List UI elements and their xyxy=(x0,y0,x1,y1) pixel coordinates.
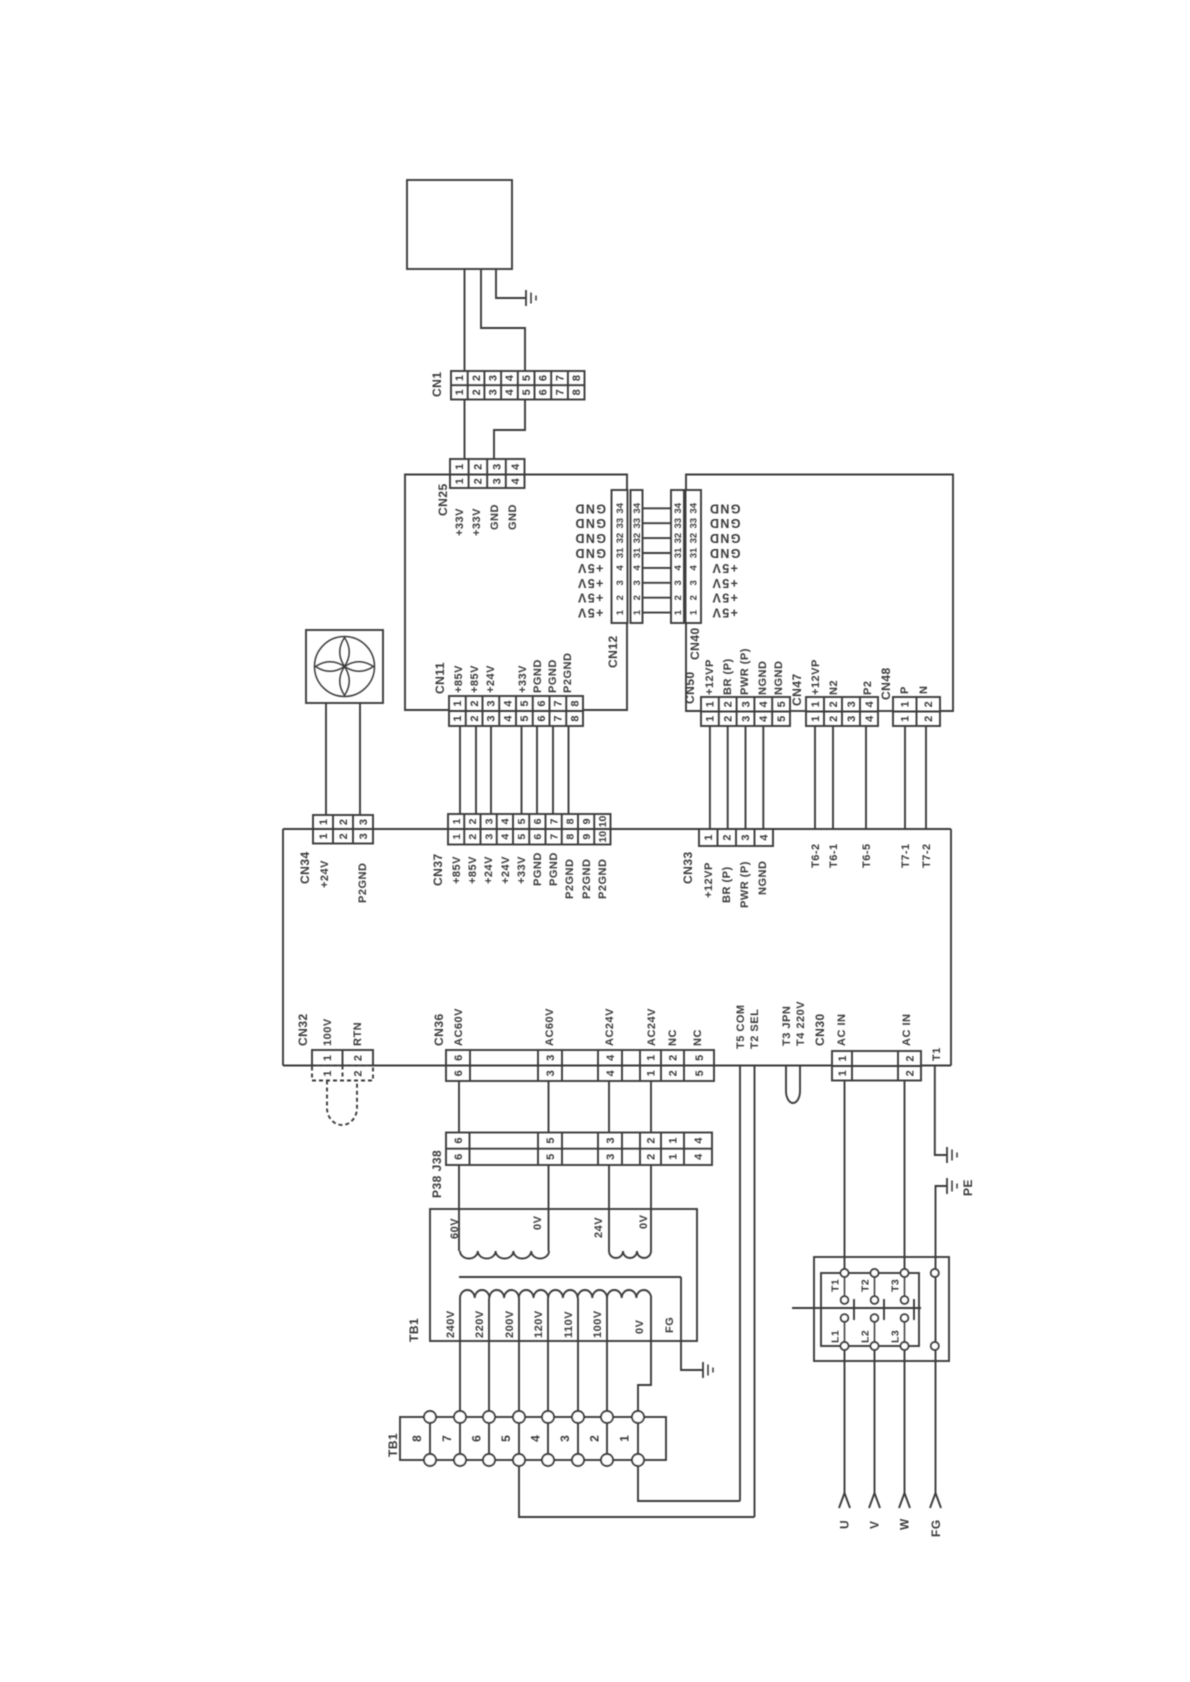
fan FAN1 xyxy=(306,630,383,703)
FG lead xyxy=(681,1277,703,1370)
svg-text:L2: L2 xyxy=(860,1330,872,1343)
svg-text:220V: 220V xyxy=(474,1310,486,1338)
ground FG xyxy=(702,1362,704,1378)
svg-text:+24V: +24V xyxy=(500,856,512,884)
svg-text:2: 2 xyxy=(469,715,481,721)
svg-text:5: 5 xyxy=(521,375,533,381)
svg-text:CN50: CN50 xyxy=(683,671,697,704)
svg-text:+12VP: +12VP xyxy=(704,659,716,695)
svg-text:3: 3 xyxy=(545,1055,557,1061)
svg-text:6: 6 xyxy=(453,1055,465,1061)
svg-text:NC: NC xyxy=(667,1029,679,1046)
svg-text:100V: 100V xyxy=(592,1310,604,1338)
svg-text:PGND: PGND xyxy=(547,659,559,693)
svg-text:1: 1 xyxy=(318,819,330,825)
svg-text:T2: T2 xyxy=(860,1279,872,1292)
svg-text:4: 4 xyxy=(529,1435,543,1442)
tap 220V xyxy=(488,1298,490,1411)
svg-text:1: 1 xyxy=(454,375,466,381)
svg-text:34: 34 xyxy=(615,502,626,513)
svg-text:33: 33 xyxy=(615,518,626,529)
svg-text:1: 1 xyxy=(837,1070,849,1076)
terminal circle top xyxy=(483,1411,495,1423)
svg-text:3: 3 xyxy=(486,700,498,706)
wire CN12 to CN40 xyxy=(643,537,672,539)
svg-text:3: 3 xyxy=(491,464,503,470)
svg-text:33: 33 xyxy=(689,518,700,529)
connector CN50 xyxy=(701,697,790,726)
display unit block xyxy=(407,180,512,269)
connector CN30 xyxy=(832,1051,921,1081)
svg-text:9: 9 xyxy=(581,818,593,824)
svg-text:AC24V: AC24V xyxy=(604,1008,616,1046)
contactor pole T3-L3 xyxy=(904,1273,906,1300)
wire display ground lead xyxy=(496,269,526,298)
svg-text:6: 6 xyxy=(538,389,550,395)
wire J38 to transformer xyxy=(650,1165,652,1251)
connector CN33 xyxy=(699,829,773,846)
svg-text:CN33: CN33 xyxy=(681,851,695,884)
svg-text:6: 6 xyxy=(532,834,544,840)
terminal circle bottom xyxy=(601,1454,613,1466)
svg-text:+24V: +24V xyxy=(319,860,331,888)
svg-text:2: 2 xyxy=(673,595,684,600)
svg-text:2: 2 xyxy=(588,1435,602,1442)
svg-text:1: 1 xyxy=(673,609,684,615)
svg-text:3: 3 xyxy=(740,701,752,707)
svg-text:3: 3 xyxy=(358,833,370,839)
svg-text:T6-2: T6-2 xyxy=(810,843,822,868)
svg-text:L3: L3 xyxy=(890,1330,902,1343)
svg-text:+5V: +5V xyxy=(711,561,738,575)
svg-text:GND: GND xyxy=(709,546,741,560)
connector CN37 xyxy=(448,814,611,845)
svg-text:+85V: +85V xyxy=(453,665,465,693)
svg-text:4: 4 xyxy=(500,834,512,840)
wire CN11 to CN37 xyxy=(459,726,461,814)
svg-text:+5V: +5V xyxy=(577,576,604,590)
svg-text:8: 8 xyxy=(571,389,583,395)
svg-text:6: 6 xyxy=(453,1138,465,1144)
svg-text:1: 1 xyxy=(322,1070,334,1076)
svg-text:33: 33 xyxy=(673,518,684,529)
transformer secondary winding 24V xyxy=(609,1251,651,1258)
wire CN12 to CN40 xyxy=(643,597,672,599)
connector CN1 xyxy=(451,371,585,400)
board box 1 outline xyxy=(405,475,450,711)
svg-text:1: 1 xyxy=(452,700,464,706)
arrow U xyxy=(839,1493,850,1508)
svg-text:31: 31 xyxy=(615,547,626,558)
svg-text:4: 4 xyxy=(504,388,516,395)
contactor PE feedthrough bottom xyxy=(931,1342,939,1350)
board box 2 outline xyxy=(686,475,953,712)
svg-text:PGND: PGND xyxy=(532,659,544,693)
wire output W xyxy=(904,1350,906,1493)
svg-text:1: 1 xyxy=(810,716,822,722)
terminal circle bottom xyxy=(542,1454,554,1466)
wire T1 to chassis ground xyxy=(935,1066,947,1156)
svg-text:4: 4 xyxy=(510,477,522,484)
wire T5 COM xyxy=(739,1066,741,1502)
svg-text:CN1: CN1 xyxy=(430,371,444,397)
svg-text:3: 3 xyxy=(545,1070,557,1076)
svg-text:2: 2 xyxy=(645,1154,657,1160)
svg-text:8: 8 xyxy=(565,818,577,824)
svg-text:1: 1 xyxy=(454,478,466,484)
svg-text:1: 1 xyxy=(318,833,330,839)
terminal strip TB1 xyxy=(400,1417,666,1460)
tap 100V xyxy=(606,1298,608,1411)
wire CN50 to CN33 xyxy=(745,726,747,829)
svg-text:3: 3 xyxy=(689,580,700,585)
connector CN25 xyxy=(450,459,525,488)
svg-text:4: 4 xyxy=(693,1153,705,1160)
svg-text:1: 1 xyxy=(667,1154,679,1160)
svg-text:6: 6 xyxy=(470,1435,484,1442)
svg-text:4: 4 xyxy=(605,1054,617,1061)
transformer secondary winding 60V xyxy=(460,1251,549,1259)
wire CN1 pin5 to CN25 pin3 xyxy=(494,400,525,460)
svg-text:7: 7 xyxy=(553,700,565,706)
svg-text:4: 4 xyxy=(510,463,522,470)
svg-text:34: 34 xyxy=(689,502,700,513)
svg-text:1: 1 xyxy=(837,1055,849,1061)
svg-text:5: 5 xyxy=(521,389,533,395)
svg-text:CN30: CN30 xyxy=(813,1013,827,1046)
svg-text:GND: GND xyxy=(574,501,606,515)
svg-text:10: 10 xyxy=(597,831,609,843)
svg-text:GND: GND xyxy=(574,546,606,560)
svg-text:3: 3 xyxy=(483,834,495,840)
svg-text:T1: T1 xyxy=(830,1279,842,1292)
svg-text:P2GND: P2GND xyxy=(581,859,593,899)
svg-text:GND: GND xyxy=(709,531,741,545)
svg-text:1: 1 xyxy=(451,818,463,824)
svg-text:10: 10 xyxy=(597,816,609,828)
svg-text:31: 31 xyxy=(689,547,700,558)
svg-text:5: 5 xyxy=(516,818,528,824)
svg-text:1: 1 xyxy=(632,609,643,615)
terminal circle top xyxy=(454,1411,466,1423)
svg-text:NGND: NGND xyxy=(757,861,769,895)
svg-text:34: 34 xyxy=(632,502,643,513)
connector CN11 xyxy=(449,696,583,726)
svg-text:2: 2 xyxy=(338,819,350,825)
svg-text:3: 3 xyxy=(740,716,752,722)
svg-text:P2GND: P2GND xyxy=(564,859,576,899)
wire T2 SEL xyxy=(754,1066,756,1518)
svg-text:CN25: CN25 xyxy=(436,483,450,516)
svg-text:3: 3 xyxy=(558,1435,572,1442)
wire CN48 pin1 to T7-1 xyxy=(904,726,906,829)
wire CN12 to CN40 xyxy=(643,582,672,584)
wire terminal 5 to T2 SEL xyxy=(519,1466,755,1517)
svg-text:GND: GND xyxy=(489,504,501,530)
svg-text:+5V: +5V xyxy=(577,606,604,620)
svg-text:TB1: TB1 xyxy=(386,1433,400,1457)
contactor inner box xyxy=(821,1273,919,1346)
wire CN30 pin2 to contactor T3 xyxy=(904,1081,906,1274)
svg-text:T5 COM: T5 COM xyxy=(735,1004,747,1049)
svg-text:4: 4 xyxy=(502,700,514,707)
svg-text:2: 2 xyxy=(352,1055,364,1061)
jumper T3-T4 xyxy=(786,1066,800,1104)
svg-text:4: 4 xyxy=(864,700,876,707)
svg-text:4: 4 xyxy=(632,565,643,571)
svg-text:100V: 100V xyxy=(322,1018,334,1046)
svg-text:2: 2 xyxy=(471,389,483,395)
svg-text:6: 6 xyxy=(532,818,544,824)
svg-text:5: 5 xyxy=(694,1070,706,1076)
svg-text:4: 4 xyxy=(689,565,700,571)
svg-text:2: 2 xyxy=(645,1138,657,1144)
svg-text:GND: GND xyxy=(574,531,606,545)
svg-text:32: 32 xyxy=(615,533,626,544)
svg-text:0V: 0V xyxy=(634,1319,646,1334)
svg-text:BR (P): BR (P) xyxy=(722,658,734,695)
wire CN12 to CN40 xyxy=(643,507,672,509)
svg-text:T6-5: T6-5 xyxy=(861,843,873,868)
svg-text:3: 3 xyxy=(488,389,500,395)
svg-text:2: 2 xyxy=(473,464,485,470)
terminal circle top xyxy=(601,1411,613,1423)
svg-text:5: 5 xyxy=(694,1055,706,1061)
svg-text:1: 1 xyxy=(645,1055,657,1061)
svg-text:N2: N2 xyxy=(828,680,840,695)
svg-text:W: W xyxy=(898,1518,912,1530)
svg-text:1: 1 xyxy=(667,1138,679,1144)
terminal circle top xyxy=(632,1411,644,1423)
connector CN47 xyxy=(806,697,878,726)
svg-text:2: 2 xyxy=(615,595,626,600)
svg-text:CN11: CN11 xyxy=(433,662,447,694)
svg-text:P2: P2 xyxy=(862,681,874,695)
terminal circle bottom xyxy=(513,1454,525,1466)
svg-text:NGND: NGND xyxy=(757,661,769,695)
svg-text:PWR (P): PWR (P) xyxy=(739,648,751,695)
svg-text:3: 3 xyxy=(632,580,643,585)
svg-text:2: 2 xyxy=(338,833,350,839)
connector P38 J38 xyxy=(446,1133,712,1166)
contactor PE feedthrough top xyxy=(931,1269,939,1277)
terminal circle bottom xyxy=(632,1454,644,1466)
svg-text:3: 3 xyxy=(605,1138,617,1144)
wire output U xyxy=(844,1350,846,1493)
svg-text:CN37: CN37 xyxy=(431,853,445,886)
wire CN11 to CN37 xyxy=(521,726,523,814)
power unit box outline xyxy=(283,828,313,830)
svg-text:CN32: CN32 xyxy=(296,1013,310,1046)
wire terminal 1 to T5 COM xyxy=(638,1466,740,1501)
svg-text:U: U xyxy=(838,1520,852,1529)
svg-text:32: 32 xyxy=(673,533,684,544)
svg-text:4: 4 xyxy=(504,374,516,381)
connector CN40 xyxy=(671,490,684,623)
svg-text:3: 3 xyxy=(491,478,503,484)
wire CN12 to CN40 xyxy=(643,552,672,554)
tap 0V xyxy=(638,1298,651,1411)
svg-text:4: 4 xyxy=(673,565,684,571)
svg-text:CN36: CN36 xyxy=(432,1013,446,1046)
ground PE xyxy=(946,1178,948,1194)
svg-text:1: 1 xyxy=(900,716,912,722)
svg-text:8: 8 xyxy=(571,375,583,381)
terminal circle top xyxy=(542,1411,554,1423)
svg-text:60V: 60V xyxy=(449,1218,461,1239)
svg-text:PE: PE xyxy=(961,1179,975,1196)
connector CN12 xyxy=(612,490,628,623)
transformer primary winding xyxy=(460,1290,651,1298)
svg-text:2: 2 xyxy=(632,595,643,600)
svg-text:+5V: +5V xyxy=(577,561,604,575)
svg-text:FG: FG xyxy=(929,1519,943,1537)
wire CN36 to J38 xyxy=(650,1081,652,1133)
svg-text:+33V: +33V xyxy=(517,665,529,693)
svg-text:6: 6 xyxy=(453,1154,465,1160)
svg-text:T3 JPN: T3 JPN xyxy=(781,1006,793,1046)
svg-text:+5V: +5V xyxy=(711,591,738,605)
svg-text:0V: 0V xyxy=(532,1215,544,1230)
svg-text:2: 2 xyxy=(722,834,734,840)
svg-text:8: 8 xyxy=(569,715,581,721)
svg-text:3: 3 xyxy=(605,1154,617,1160)
wire display pin2 to CN1 pin5 xyxy=(481,269,525,371)
transformer TB1 box xyxy=(430,1209,697,1341)
svg-text:3: 3 xyxy=(358,819,370,825)
svg-text:0V: 0V xyxy=(638,1214,650,1229)
svg-text:4: 4 xyxy=(500,818,512,824)
wire CN11 to CN37 xyxy=(490,726,492,814)
svg-text:2: 2 xyxy=(923,701,935,707)
tap 200V xyxy=(518,1298,520,1411)
svg-text:120V: 120V xyxy=(533,1310,545,1338)
svg-text:+12VP: +12VP xyxy=(703,862,715,898)
wire CN11 to CN37 xyxy=(536,726,538,814)
svg-text:6: 6 xyxy=(453,1070,465,1076)
svg-text:4: 4 xyxy=(758,700,770,707)
svg-text:7: 7 xyxy=(553,715,565,721)
svg-text:31: 31 xyxy=(632,547,643,558)
svg-text:BR (P): BR (P) xyxy=(721,866,733,903)
svg-text:2: 2 xyxy=(689,595,700,600)
wire CN47 to T6 xyxy=(865,726,867,829)
svg-text:+5V: +5V xyxy=(711,606,738,620)
svg-text:7: 7 xyxy=(554,389,566,395)
contactor outer box xyxy=(814,1257,949,1361)
svg-text:7: 7 xyxy=(548,834,560,840)
svg-text:T7-1: T7-1 xyxy=(900,843,912,868)
svg-text:P2GND: P2GND xyxy=(562,653,574,693)
tap 110V xyxy=(577,1298,579,1411)
wire CN47 to T6 xyxy=(832,726,834,829)
wire CN47 to T6 xyxy=(814,726,816,829)
svg-text:32: 32 xyxy=(632,533,643,544)
svg-text:2: 2 xyxy=(667,1070,679,1076)
terminal circle bottom xyxy=(424,1454,436,1466)
svg-text:P: P xyxy=(899,686,911,694)
svg-text:2: 2 xyxy=(469,700,481,706)
tap 240V xyxy=(459,1298,461,1411)
svg-text:AC IN: AC IN xyxy=(836,1014,848,1046)
svg-text:3: 3 xyxy=(740,834,752,840)
arrow V xyxy=(869,1493,880,1508)
svg-text:240V: 240V xyxy=(445,1310,457,1338)
svg-text:3: 3 xyxy=(846,701,858,707)
svg-text:+33V: +33V xyxy=(471,508,483,536)
svg-text:1: 1 xyxy=(451,834,463,840)
terminal circle bottom xyxy=(572,1454,584,1466)
svg-text:1: 1 xyxy=(454,389,466,395)
svg-text:4: 4 xyxy=(615,565,626,571)
svg-text:1: 1 xyxy=(900,701,912,707)
connector CN34 xyxy=(313,815,373,844)
svg-text:CN12: CN12 xyxy=(606,635,620,668)
svg-text:200V: 200V xyxy=(504,1310,516,1338)
svg-text:P2GND: P2GND xyxy=(597,859,609,899)
svg-text:+24V: +24V xyxy=(483,856,495,884)
svg-text:4: 4 xyxy=(693,1137,705,1144)
svg-text:5: 5 xyxy=(776,716,788,722)
svg-text:1: 1 xyxy=(454,464,466,470)
svg-text:1: 1 xyxy=(810,701,822,707)
svg-text:RTN: RTN xyxy=(352,1022,364,1046)
svg-text:P2GND: P2GND xyxy=(357,863,369,903)
svg-text:2: 2 xyxy=(467,818,479,824)
svg-text:TB1: TB1 xyxy=(407,1318,421,1342)
connector CN48 xyxy=(893,697,940,726)
svg-text:6: 6 xyxy=(536,700,548,706)
svg-text:T6-1: T6-1 xyxy=(828,843,840,868)
wire CN11 to CN37 xyxy=(552,726,554,814)
svg-text:7: 7 xyxy=(554,375,566,381)
svg-text:T2 SEL: T2 SEL xyxy=(749,1009,761,1049)
svg-text:6: 6 xyxy=(538,375,550,381)
svg-text:2: 2 xyxy=(352,1070,364,1076)
svg-text:1: 1 xyxy=(322,1055,334,1061)
svg-text:7: 7 xyxy=(440,1435,454,1442)
arrow FG xyxy=(930,1493,941,1508)
svg-text:GND: GND xyxy=(709,516,741,530)
svg-text:1: 1 xyxy=(452,715,464,721)
svg-text:L1: L1 xyxy=(830,1330,842,1343)
terminal circle bottom xyxy=(483,1454,495,1466)
wire CN36 to J38 xyxy=(548,1081,550,1133)
wire CN12 to CN40 xyxy=(643,522,672,524)
svg-text:2: 2 xyxy=(923,716,935,722)
svg-text:3: 3 xyxy=(483,818,495,824)
svg-text:2: 2 xyxy=(473,478,485,484)
svg-text:GND: GND xyxy=(507,504,519,530)
wire J38 to transformer xyxy=(608,1165,610,1251)
wire CN50 to CN33 xyxy=(709,726,711,829)
jumper loop on CN32 xyxy=(327,1081,357,1126)
svg-text:GND: GND xyxy=(709,501,741,515)
svg-text:3: 3 xyxy=(486,715,498,721)
svg-text:3: 3 xyxy=(488,375,500,381)
svg-text:AC IN: AC IN xyxy=(901,1014,913,1046)
svg-text:4: 4 xyxy=(758,715,770,722)
wire CN30 pin1 to contactor T1 xyxy=(844,1081,846,1274)
svg-text:8: 8 xyxy=(569,700,581,706)
wire CN11 to CN37 xyxy=(568,726,570,814)
svg-text:4: 4 xyxy=(759,834,771,841)
svg-text:N: N xyxy=(918,686,930,694)
svg-text:CN47: CN47 xyxy=(790,673,804,706)
wire CN11 to CN37 xyxy=(475,726,477,814)
wire fan pin2 to CN34 pin3 xyxy=(359,703,361,815)
svg-text:34: 34 xyxy=(673,502,684,513)
